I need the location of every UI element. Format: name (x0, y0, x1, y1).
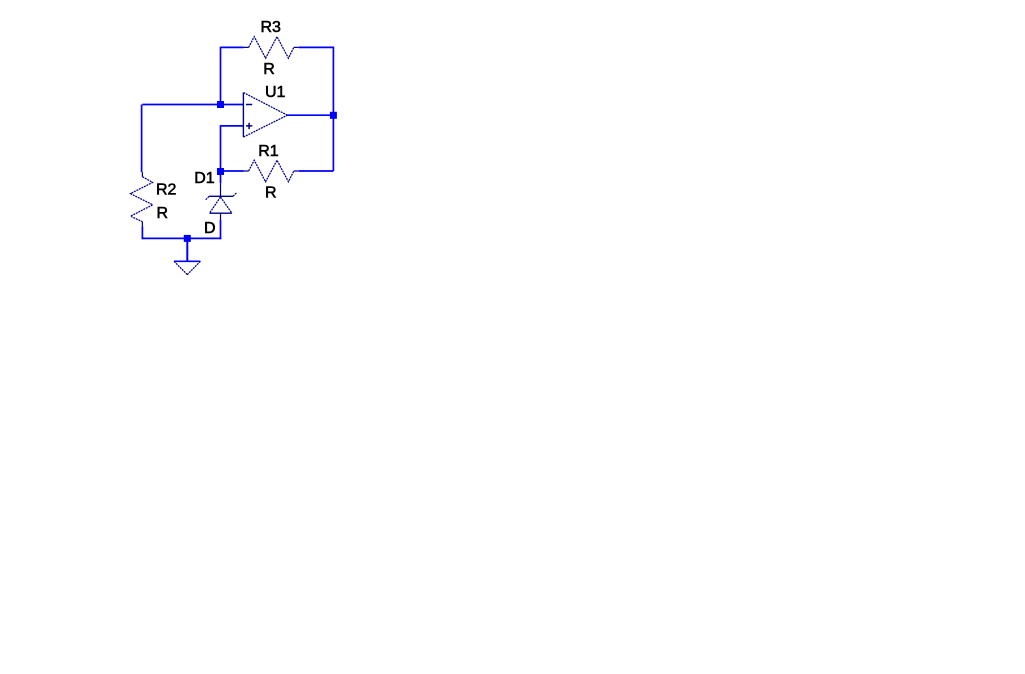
svg-text:D1: D1 (194, 170, 215, 187)
svg-text:R1: R1 (258, 143, 279, 160)
svg-text:R3: R3 (261, 19, 282, 36)
svg-text:D: D (204, 220, 216, 237)
svg-text:U1: U1 (265, 84, 286, 101)
svg-text:R2: R2 (156, 181, 177, 198)
svg-text:R: R (263, 61, 275, 78)
svg-text:R: R (157, 205, 169, 222)
svg-text:R: R (265, 185, 277, 202)
